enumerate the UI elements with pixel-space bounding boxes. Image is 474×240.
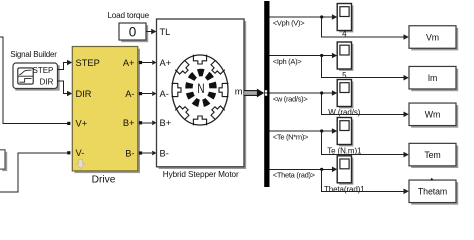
svg-text:B-: B- xyxy=(125,148,134,158)
scope Theta(rad)1 xyxy=(337,156,353,185)
svg-text:Vm: Vm xyxy=(426,32,439,42)
svg-text:Hybrid Stepper Motor: Hybrid Stepper Motor xyxy=(163,170,239,179)
wire TL (constant to motor) xyxy=(146,29,157,35)
icon pale anchor arrow inside Drive xyxy=(76,159,84,168)
scope 4 xyxy=(337,4,353,33)
svg-text:<Te (N*m)>: <Te (N*m)> xyxy=(273,132,309,141)
svg-text:A+: A+ xyxy=(160,58,172,68)
svg-text:W (rad/s): W (rad/s) xyxy=(328,108,360,117)
wire branch to Vm xyxy=(322,17,409,40)
svg-text:5: 5 xyxy=(342,71,347,80)
scope 5 xyxy=(337,42,353,71)
port marker on bus bar xyxy=(265,90,267,96)
svg-text:m: m xyxy=(235,86,243,96)
wire signal W (rad/s) from bus xyxy=(270,90,338,96)
block Tem xyxy=(409,143,458,168)
svg-text:TL: TL xyxy=(160,27,171,37)
svg-text:V+: V+ xyxy=(76,119,88,129)
svg-text:Tem: Tem xyxy=(424,150,440,160)
svg-text:STEP: STEP xyxy=(76,58,100,68)
wire B- (Drive to Motor) xyxy=(139,151,157,156)
wire branch to Tem xyxy=(322,131,409,157)
block Vm xyxy=(409,26,458,51)
svg-text:B+: B+ xyxy=(123,118,135,128)
svg-text:V-: V- xyxy=(76,148,85,158)
block Constant 0 xyxy=(119,23,148,42)
block Wm xyxy=(409,103,458,128)
scope Te (N.m)1 xyxy=(337,118,353,147)
wire B+ (Drive to Motor) xyxy=(139,120,157,125)
wire branch to Im xyxy=(322,56,409,81)
scope W (rad/s) xyxy=(337,80,353,109)
block Im xyxy=(409,66,458,91)
svg-text:0: 0 xyxy=(129,24,137,39)
svg-text:Theta(rad)1: Theta(rad)1 xyxy=(324,185,365,194)
svg-text:DIR: DIR xyxy=(76,89,92,99)
svg-text:<Theta (rad)>: <Theta (rad)> xyxy=(273,171,316,180)
wire V+ (from left edge) xyxy=(0,37,70,125)
wire DIR (Signal Builder to Drive) xyxy=(58,81,73,97)
svg-text:Thetam: Thetam xyxy=(418,187,447,197)
svg-text:A+: A+ xyxy=(123,58,135,68)
svg-text:Load torque: Load torque xyxy=(107,11,149,20)
block Thetam xyxy=(409,180,458,205)
icon stepper motor (stator + rotor) xyxy=(172,55,229,126)
block Drive xyxy=(72,47,140,174)
svg-text:Im: Im xyxy=(428,73,438,83)
svg-text:STEP: STEP xyxy=(32,66,53,75)
wire branch to Wm xyxy=(322,93,409,117)
svg-text:Wm: Wm xyxy=(425,110,440,120)
svg-text:B-: B- xyxy=(160,148,169,158)
svg-text:A-: A- xyxy=(125,89,134,99)
block Hybrid Stepper Motor xyxy=(157,19,247,169)
wire STEP (Signal Builder to Drive) xyxy=(58,60,73,70)
wire A- (Drive to Motor) xyxy=(139,91,157,96)
svg-text:Signal Builder: Signal Builder xyxy=(10,50,57,59)
svg-text:<Vph (V)>: <Vph (V)> xyxy=(273,18,305,27)
marker tiny arrow on Thetam top edge xyxy=(430,178,433,180)
svg-text:A-: A- xyxy=(160,89,169,99)
wire V- (from left edge) xyxy=(0,151,70,192)
wire signal Theta(rad)1 from bus xyxy=(270,167,338,173)
wire signal 4 from bus xyxy=(270,14,338,20)
wire branch to Thetam xyxy=(322,169,409,194)
wire signal 5 from bus xyxy=(270,53,338,59)
svg-text:N: N xyxy=(197,80,204,96)
wire A+ (Drive to Motor) xyxy=(139,60,157,65)
wire m (motor output bus) xyxy=(244,89,264,98)
svg-text:<Iph (A)>: <Iph (A)> xyxy=(273,57,302,66)
block partial (clipped at left edge) xyxy=(0,150,7,171)
wire signal Te (N.m)1 from bus xyxy=(270,128,338,134)
block Signal Builder U1 xyxy=(13,63,60,91)
svg-text:DIR: DIR xyxy=(40,77,54,86)
svg-text:Drive: Drive xyxy=(92,174,116,185)
bus selector bar xyxy=(264,1,269,187)
svg-text:<w (rad/s)>: <w (rad/s)> xyxy=(273,94,309,103)
svg-text:B+: B+ xyxy=(160,118,172,128)
